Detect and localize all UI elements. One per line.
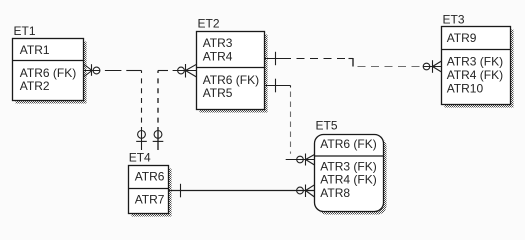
svg-text:ATR8: ATR8 bbox=[320, 186, 350, 200]
svg-text:ET1: ET1 bbox=[14, 24, 36, 38]
svg-text:ATR6: ATR6 bbox=[135, 170, 165, 184]
svg-text:ATR7: ATR7 bbox=[135, 192, 165, 206]
svg-text:ATR4 (FK): ATR4 (FK) bbox=[320, 173, 376, 187]
svg-text:ATR6 (FK): ATR6 (FK) bbox=[20, 66, 76, 80]
svg-text:ATR3 (FK): ATR3 (FK) bbox=[320, 159, 376, 173]
svg-text:ATR5: ATR5 bbox=[203, 86, 233, 100]
svg-text:ATR10: ATR10 bbox=[447, 82, 484, 96]
svg-text:ET2: ET2 bbox=[198, 17, 220, 31]
svg-text:ATR4 (FK): ATR4 (FK) bbox=[447, 68, 503, 82]
svg-text:ATR9: ATR9 bbox=[447, 31, 477, 45]
svg-text:ATR6 (FK): ATR6 (FK) bbox=[203, 73, 259, 87]
svg-text:ATR4: ATR4 bbox=[203, 50, 233, 64]
svg-text:ATR3 (FK): ATR3 (FK) bbox=[447, 55, 503, 69]
svg-text:ATR3: ATR3 bbox=[203, 36, 233, 50]
svg-text:ATR2: ATR2 bbox=[20, 79, 50, 93]
svg-text:ET4: ET4 bbox=[129, 151, 151, 165]
svg-text:ATR6 (FK): ATR6 (FK) bbox=[320, 137, 376, 151]
svg-text:ATR1: ATR1 bbox=[20, 43, 50, 57]
svg-text:ET5: ET5 bbox=[316, 119, 338, 133]
svg-text:ET3: ET3 bbox=[443, 13, 465, 27]
